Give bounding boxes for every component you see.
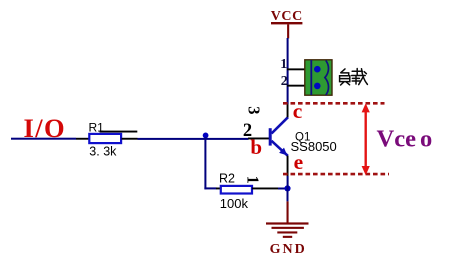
svg-text:R2: R2: [219, 172, 235, 186]
svg-text:1: 1: [244, 176, 263, 184]
svg-text:2: 2: [281, 74, 288, 89]
svg-text:VCC: VCC: [271, 9, 303, 24]
svg-text:3. 3k: 3. 3k: [89, 145, 117, 159]
svg-text:b: b: [250, 135, 262, 159]
svg-text:1: 1: [280, 57, 287, 72]
svg-text:100k: 100k: [220, 196, 249, 211]
svg-text:Vceo: Vceo: [377, 125, 433, 152]
svg-text:GND: GND: [270, 242, 307, 257]
svg-text:SS8050: SS8050: [291, 139, 337, 154]
svg-text:3: 3: [245, 106, 264, 114]
